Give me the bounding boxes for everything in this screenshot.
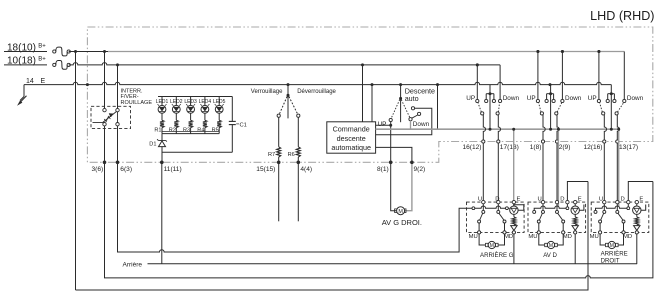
wire: pin 16(12) down to door module xyxy=(482,143,484,200)
svg-text:automatique: automatique xyxy=(331,143,371,152)
svg-text:E: E xyxy=(517,196,521,202)
internal bus of AV D xyxy=(534,206,567,210)
wire: module AV D ground column to Arriere bus xyxy=(574,234,576,264)
ground symbol xyxy=(20,97,24,101)
common of Down switch switch group AV D window xyxy=(555,112,558,115)
contact UP-inner of switch group AV D window xyxy=(545,99,548,102)
wire MD to window motor of AV D xyxy=(557,234,563,245)
svg-text:E: E xyxy=(41,78,46,85)
capacitor C1 xyxy=(231,97,233,122)
contact c of AV D xyxy=(556,210,559,213)
wire E terminal to breaker AV D xyxy=(574,204,576,206)
wire MD to window motor of ARRIERE DROIT xyxy=(618,234,623,245)
contact b of AV D xyxy=(542,210,545,213)
wire: B+ supply 10(18) xyxy=(4,64,47,66)
blade Down switch switch group ARRIERE G window xyxy=(499,103,500,113)
resistor R1 xyxy=(160,120,164,127)
descente auto pivot xyxy=(399,97,402,100)
lock switch contact top-left xyxy=(103,108,106,111)
module AV D: dashed enclosure xyxy=(528,202,586,232)
terminal U of ARRIERE G xyxy=(482,200,485,203)
svg-text:descente: descente xyxy=(337,134,366,143)
svg-text:C1: C1 xyxy=(240,122,247,128)
common MU of ARRIERE DROIT xyxy=(599,220,602,223)
wire: B+ feed to 16(12) UP contact xyxy=(476,65,478,100)
resistor R5 xyxy=(217,120,221,127)
wire: pin 9(2) to driver motor (gray) xyxy=(405,164,412,211)
wire: B+ rail from fuse 10(18) xyxy=(69,63,500,65)
contact a of AV D xyxy=(533,210,536,213)
wire: ARRIERE DROIT module link loop over E xyxy=(628,182,653,201)
svg-text:R4: R4 xyxy=(197,128,204,134)
breaker/motor circle of ARRIERE G xyxy=(510,206,518,214)
svg-text:M: M xyxy=(398,209,403,215)
blade MU switch AV D xyxy=(539,213,542,220)
svg-text:1(8): 1(8) xyxy=(530,144,542,151)
resistor of ARRIERE G xyxy=(512,217,516,225)
wire: B+ vertical from 18(10) rail down to bottom feeder xyxy=(75,52,77,291)
terminal U of AV D xyxy=(541,200,544,203)
terminal MD of ARRIERE DROIT xyxy=(622,231,625,234)
wire E terminal to breaker ARRIERE DROIT xyxy=(636,204,638,206)
svg-text:UP: UP xyxy=(588,95,597,102)
wire: B+ supply 18(10) xyxy=(4,51,47,53)
contact Down-inner of switch group ARRIERE DROIT window xyxy=(613,99,616,102)
terminal E-ground of ARRIERE DROIT xyxy=(635,231,638,234)
svg-text:17(13): 17(13) xyxy=(500,144,519,151)
thermistor triangle of AV D xyxy=(572,226,578,231)
terminal E-ground of AV D xyxy=(574,231,577,234)
wire: ground tap from E rail to E bus xyxy=(437,85,439,130)
wire: Verrouillage contact to R7 xyxy=(278,117,280,147)
svg-text:Arrière: Arrière xyxy=(123,262,143,269)
pin 2(9) xyxy=(555,140,558,143)
wire U terminal to contact AV D xyxy=(542,204,544,211)
wire: module ARRIERE G ground column to Arriere bus xyxy=(513,234,515,264)
lock switch contact bottom-right xyxy=(116,123,119,126)
blade MU switch ARRIERE DROIT xyxy=(601,213,604,220)
tee bar connecting inner contacts of switch group AV D window xyxy=(547,93,554,95)
wire: E rail into auto-down module xyxy=(371,85,373,122)
wire common to MD ARRIERE G xyxy=(504,223,506,231)
wire: pin 6(3) down and right to ARRIERE G module link xyxy=(118,164,467,252)
internal bus of ARRIERE DROIT xyxy=(596,206,629,210)
junction circle ARRIERE DROIT xyxy=(627,207,630,210)
svg-text:R6: R6 xyxy=(288,152,295,158)
wire: Down contact to E bus (gray) xyxy=(410,121,412,129)
wire common to MD AV D xyxy=(562,223,564,231)
zener diode D1 xyxy=(161,134,163,141)
main power window switch unit boundary (dash-dot) xyxy=(87,27,652,162)
wire: ground drop to module ARRIERE DROIT (gray) xyxy=(618,129,620,206)
blade UP switch switch group AV D window xyxy=(539,103,542,113)
wire U terminal to contact ARRIERE DROIT xyxy=(603,204,605,211)
svg-text:M: M xyxy=(490,243,494,249)
contact UP-inner of switch group ARRIERE DROIT window xyxy=(606,99,609,102)
terminal E of ARRIERE G xyxy=(512,200,515,203)
svg-text:B+: B+ xyxy=(38,57,46,63)
contact UP-outer of switch group ARRIERE DROIT window xyxy=(597,99,600,102)
wire: B+ rail into auto-down module xyxy=(362,65,364,122)
svg-text:E: E xyxy=(639,196,643,202)
wire E terminal to breaker ARRIERE G xyxy=(513,204,515,206)
svg-text:LHD (RHD): LHD (RHD) xyxy=(590,9,654,23)
wire: B+ feed to 12(16) UP contact xyxy=(598,52,600,100)
descente auto center pole xyxy=(400,98,402,122)
wire: pin 12(16) down to door module xyxy=(603,143,605,200)
svg-text:DROIT: DROIT xyxy=(601,258,620,265)
svg-text:R7: R7 xyxy=(268,152,275,158)
wire common to MU ARRIERE DROIT xyxy=(599,223,601,231)
blade to Verrouillage contact xyxy=(279,97,287,115)
wire: bottom B+ feeder to AV D module loop xyxy=(76,182,589,291)
pin 6(3) xyxy=(116,161,120,165)
svg-text:E: E xyxy=(578,196,582,202)
lock switch right link bar xyxy=(117,112,119,123)
module ARRIERE G: dashed enclosure xyxy=(467,202,525,232)
wire: ground drop to module ARRIERE G (gray) xyxy=(513,129,515,206)
latch contact b xyxy=(418,112,421,115)
window motor of AV D xyxy=(545,243,548,246)
svg-text:14: 14 xyxy=(26,78,34,85)
wire: common of 12(16) down to pin, hops over E bus xyxy=(604,115,606,140)
terminal MD of ARRIERE G xyxy=(503,231,506,234)
wire common to MU ARRIERE G xyxy=(478,223,480,231)
motor AV G DROI xyxy=(395,209,397,213)
wire: B+ feed to 17(13) Down contact xyxy=(499,65,501,100)
wire: latch contact to sense line xyxy=(376,108,432,135)
common of UP switch switch group ARRIERE DROIT window xyxy=(602,112,605,115)
terminal E of AV D xyxy=(574,200,577,203)
svg-text:15(15): 15(15) xyxy=(256,166,275,173)
blade to UP contact xyxy=(391,100,400,119)
blade to Down contact xyxy=(401,100,410,118)
svg-text:13(17): 13(17) xyxy=(619,144,638,151)
terminal E of ARRIERE DROIT xyxy=(635,200,638,203)
wire D terminal to contact ARRIERE DROIT xyxy=(616,204,618,211)
svg-text:D1: D1 xyxy=(149,141,156,147)
fuse on 18(10) B+ line xyxy=(53,50,56,53)
descente auto switch: feed from E rail xyxy=(400,85,402,99)
svg-text:MD: MD xyxy=(623,234,632,240)
resistor R2 xyxy=(174,120,178,127)
thermistor triangle of ARRIERE DROIT xyxy=(634,226,640,231)
internal bus of ARRIERE G (fed from door lock wire) xyxy=(467,206,510,208)
svg-text:D: D xyxy=(621,196,625,202)
ground tee of switch group ARRIERE DROIT window: center vertical from E wire to E bus xyxy=(610,85,612,130)
tee bar connecting inner contacts of switch group ARRIERE G window xyxy=(486,93,494,95)
wire: lock switch to pin 3(6) xyxy=(104,126,106,161)
wire: control unit output to pin 9(2) xyxy=(376,147,412,160)
wire: pin 13(17) down to door module xyxy=(616,143,618,200)
wire U terminal to contact ARRIERE G xyxy=(482,204,484,211)
wire: common of 16(12) down to pin, hops over E bus xyxy=(483,115,485,140)
svg-text:UP: UP xyxy=(378,121,387,128)
blade MU switch ARRIERE G xyxy=(480,213,483,220)
svg-text:MU: MU xyxy=(528,234,537,240)
resistor R6 xyxy=(296,147,300,157)
svg-text:R1: R1 xyxy=(154,128,161,134)
svg-text:Verrouillage: Verrouillage xyxy=(251,89,283,95)
svg-text:Down: Down xyxy=(627,95,644,102)
resistor R3 xyxy=(189,120,193,127)
contact Down-outer of switch group ARRIERE G window xyxy=(499,99,502,102)
svg-text:Déverrouillage: Déverrouillage xyxy=(297,89,336,95)
svg-text:AV D: AV D xyxy=(543,252,557,259)
wire: module ARRIERE DROIT ground column to Arriere bus xyxy=(636,234,638,264)
svg-text:B+: B+ xyxy=(38,43,46,49)
contact UP-inner of switch group ARRIERE G window xyxy=(485,99,488,102)
junction circle b of ARRIERE G xyxy=(506,207,509,210)
breaker/motor circle of ARRIERE DROIT xyxy=(633,206,641,214)
contact Down-outer of switch group ARRIERE DROIT window xyxy=(623,99,626,102)
svg-text:3(6): 3(6) xyxy=(92,166,104,173)
wire common to MD ARRIERE DROIT xyxy=(623,223,625,231)
svg-text:MD: MD xyxy=(563,234,572,240)
wire: pin 15(15) output stub xyxy=(278,164,280,221)
common MU of ARRIERE G xyxy=(478,220,481,223)
wire: lock switch to pin 6(3) xyxy=(117,126,119,161)
wire MU to window motor of ARRIERE G xyxy=(479,234,485,245)
svg-text:11(11): 11(11) xyxy=(164,166,182,173)
common MD of ARRIERE DROIT xyxy=(622,220,625,223)
terminal (link) of AV D xyxy=(566,200,569,203)
svg-text:D: D xyxy=(560,196,564,202)
svg-text:MU: MU xyxy=(469,234,478,240)
breaker/motor circle of AV D xyxy=(571,206,579,214)
terminal D of AV D xyxy=(555,200,558,203)
wire: pin 3(6) down and right to rear-right module link xyxy=(105,164,653,278)
pin 4(4) xyxy=(297,161,301,165)
svg-text:Down: Down xyxy=(503,95,520,102)
wire: UP contact to control unit xyxy=(376,122,391,126)
wire: resistor bottom bus xyxy=(162,130,219,132)
thermistor triangle of ARRIERE G xyxy=(511,226,517,231)
window motor of ARRIERE DROIT xyxy=(606,243,609,246)
wire D terminal to contact ARRIERE G xyxy=(497,204,499,211)
pin 15(15) xyxy=(277,161,281,165)
junction circle AV D xyxy=(566,207,569,210)
blade MD switch ARRIERE G xyxy=(499,213,504,220)
control unit: Commande descente automatique xyxy=(327,122,376,153)
wire: ARRIERE G module link loop to motor xyxy=(514,204,524,210)
latch blade xyxy=(412,115,418,118)
blade UP switch switch group ARRIERE G window xyxy=(478,103,481,113)
wire link terminal into ARRIERE DROIT xyxy=(627,204,629,208)
svg-text:6(3): 6(3) xyxy=(120,166,132,173)
wire common to MU AV D xyxy=(538,223,540,231)
terminal (link) of ARRIERE DROIT xyxy=(627,200,630,203)
wire: B+ feed to 1(8) UP contact xyxy=(537,52,539,100)
svg-text:MU: MU xyxy=(590,234,599,240)
terminal MU of ARRIERE G xyxy=(478,231,481,234)
module ARRIERE DROIT: dashed enclosure xyxy=(591,202,649,232)
fuse on 10(18) B+ line xyxy=(53,63,56,66)
blade MD switch AV D xyxy=(558,213,563,220)
blade to Déverrouillage contact xyxy=(289,97,298,115)
svg-text:12(16): 12(16) xyxy=(583,144,602,151)
window lock switch INTERR. F/VERROUILLAGE: dashed box xyxy=(91,106,131,128)
terminal D of ARRIERE DROIT xyxy=(616,200,619,203)
wire: drop to chassis ground xyxy=(23,85,25,97)
wire D terminal to contact AV D xyxy=(556,204,558,211)
svg-text:2(9): 2(9) xyxy=(559,144,571,151)
wire MD to window motor of ARRIERE G xyxy=(498,234,504,245)
common of UP switch switch group ARRIERE G window xyxy=(481,112,484,115)
contact c of ARRIERE G xyxy=(497,210,500,213)
blade Down switch switch group AV D window xyxy=(557,103,562,113)
contact Down (descente auto) xyxy=(409,118,412,121)
resistor R7 xyxy=(277,147,281,157)
svg-text:R3: R3 xyxy=(183,128,190,134)
pin 11(11) xyxy=(160,161,164,165)
svg-text:auto: auto xyxy=(405,94,419,103)
wire MU to window motor of AV D xyxy=(539,234,545,245)
svg-text:ARRIÈRE G: ARRIÈRE G xyxy=(480,252,514,259)
wire: common of 2(9) down to pin, hops over E bus xyxy=(557,115,559,140)
common of Down switch switch group ARRIERE DROIT window xyxy=(615,112,618,115)
svg-text:R2: R2 xyxy=(169,128,176,134)
svg-text:MD: MD xyxy=(504,234,513,240)
wire: common of 17(13) down to pin, hops over E bus xyxy=(498,115,500,140)
wire: AV D module link loop over E xyxy=(567,182,588,201)
contact UP-outer of switch group AV D window xyxy=(536,99,539,102)
terminal MU of ARRIERE DROIT xyxy=(599,231,602,234)
window motor of ARRIERE G xyxy=(486,243,489,246)
common MU of AV D xyxy=(537,220,540,223)
svg-text:4(4): 4(4) xyxy=(300,166,312,173)
svg-text:Commande: Commande xyxy=(333,125,370,134)
wire: B+ rail from fuse 18(10) xyxy=(69,51,108,53)
contact Verrouillage xyxy=(277,114,280,117)
contact Déverrouillage xyxy=(297,114,300,117)
contact c of ARRIERE DROIT xyxy=(616,210,619,213)
pin 17(13) xyxy=(497,140,500,143)
wire: B+ feed to 2(9) Down contact xyxy=(561,52,563,100)
ground tee of switch group AV D window: center vertical from E wire to E bus xyxy=(550,85,552,130)
contact Down-outer of switch group AV D window xyxy=(561,99,564,102)
wire: pin 4(4) output stub xyxy=(297,164,299,221)
pin 3(6) xyxy=(103,161,107,165)
terminal MD of AV D xyxy=(562,231,565,234)
common MD of ARRIERE G xyxy=(503,220,506,223)
wire: pin 8(1) to driver motor xyxy=(391,164,397,211)
svg-text:ROUILLAGE: ROUILLAGE xyxy=(121,100,153,106)
wire: B+ rail 18(10) continuation (gray) xyxy=(108,51,624,53)
wire: pin 2(9) down to door module xyxy=(556,143,558,200)
wire MU to window motor of ARRIERE DROIT xyxy=(600,234,605,245)
common of UP switch switch group AV D window xyxy=(540,112,543,115)
terminal D of ARRIERE G xyxy=(497,200,500,203)
svg-text:Down: Down xyxy=(565,95,582,102)
wire: ground E rail from terminal 14 xyxy=(24,82,611,84)
common MD of AV D xyxy=(562,220,565,223)
svg-text:Down: Down xyxy=(413,121,430,128)
contact Down-inner of switch group AV D window xyxy=(552,99,555,102)
wire: Déverrouillage contact to R6 xyxy=(297,117,299,147)
tee bar connecting inner contacts of switch group ARRIERE DROIT window xyxy=(608,93,615,95)
contact b of ARRIERE G xyxy=(482,210,485,213)
wire: C1 bottom return bus xyxy=(162,151,233,153)
wire: pin 11(11) down to Arriere ground bus xyxy=(161,164,163,264)
latch contact a xyxy=(411,107,414,110)
ground tee of switch group ARRIERE G window: center vertical from E wire to E bus xyxy=(489,85,491,130)
wire: pin 1(8) down to door module xyxy=(542,143,544,200)
wire: control unit output to pin 8(1) xyxy=(390,125,392,160)
contact b of ARRIERE DROIT xyxy=(603,210,606,213)
terminal MU of AV D xyxy=(537,231,540,234)
wire: ground drop to module AV D (gray) xyxy=(557,129,559,206)
wire: 18(10) rail down to lock switch xyxy=(104,52,106,109)
svg-text:R5: R5 xyxy=(212,128,219,134)
wire: 10(18) rail down to lock switch xyxy=(117,65,119,109)
resistor R4 xyxy=(203,120,207,127)
lock switch contact top-right xyxy=(116,108,119,111)
wire: ARRIERE DROIT motor side tap xyxy=(641,205,646,211)
wire: B+ feed to 13(17) Down contact xyxy=(623,52,625,100)
pin 13(17) xyxy=(616,140,619,143)
wire: pin 17(13) down to door module xyxy=(497,143,499,200)
contact Down-inner of switch group ARRIERE G window xyxy=(492,99,495,102)
pin 9(2) xyxy=(410,161,414,165)
junction circle a of ARRIERE G xyxy=(472,207,475,210)
wire: AV D motor side tap xyxy=(579,205,584,211)
svg-text:UP: UP xyxy=(466,95,475,102)
wire: Arriere ground bus to rear/front modules xyxy=(148,263,638,265)
lock switch blade xyxy=(93,112,117,123)
wire: D1 to pin 11(11) xyxy=(161,147,163,161)
lock switch contact bottom-left xyxy=(103,123,106,126)
lock/unlock switch center pole xyxy=(287,95,289,118)
terminal E-ground of ARRIERE G xyxy=(512,231,515,234)
resistor of ARRIERE DROIT xyxy=(635,217,639,225)
common of Down switch switch group ARRIERE G window xyxy=(496,112,499,115)
contact UP (descente auto) xyxy=(389,118,392,121)
resistor of AV D xyxy=(573,217,577,225)
blade UP switch switch group ARRIERE DROIT window xyxy=(600,103,603,113)
svg-text:M: M xyxy=(610,243,614,249)
contact a of ARRIERE DROIT xyxy=(594,210,597,213)
pin 12(16) xyxy=(603,140,606,143)
wire: LED array top bus xyxy=(158,96,232,98)
contact UP-outer of switch group ARRIERE G window xyxy=(476,99,479,102)
svg-text:M: M xyxy=(549,243,553,249)
svg-text:AV G DROI.: AV G DROI. xyxy=(382,218,422,227)
lock/unlock switch common xyxy=(287,85,289,96)
svg-text:9(2): 9(2) xyxy=(414,166,426,173)
pin 1(8) xyxy=(541,140,544,143)
svg-text:16(12): 16(12) xyxy=(462,144,481,151)
terminal U of ARRIERE DROIT xyxy=(603,200,606,203)
pin 8(1) xyxy=(389,161,393,165)
blade Down switch switch group ARRIERE DROIT window xyxy=(618,103,624,113)
wire: ground E bus (gray) from control unit to modules xyxy=(376,128,619,130)
wire: common of 13(17) down to pin, hops over E bus xyxy=(617,115,619,140)
wire link terminal into AV D xyxy=(566,204,568,208)
pin 16(12) xyxy=(482,140,485,143)
wire: common of 1(8) down to pin, hops over E bus xyxy=(543,115,545,140)
svg-text:UP: UP xyxy=(527,95,536,102)
blade MD switch ARRIERE DROIT xyxy=(618,213,623,220)
svg-text:8(1): 8(1) xyxy=(377,166,389,173)
